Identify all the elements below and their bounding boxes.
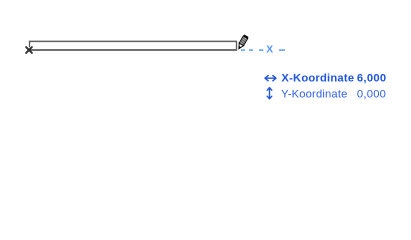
svg-text:Y-Koordinate: Y-Koordinate: [281, 89, 347, 101]
svg-text:X: X: [266, 45, 273, 56]
svg-text:0,000: 0,000: [357, 89, 386, 101]
svg-text:6,000: 6,000: [357, 73, 387, 85]
svg-text:X-Koordinate: X-Koordinate: [281, 73, 354, 85]
